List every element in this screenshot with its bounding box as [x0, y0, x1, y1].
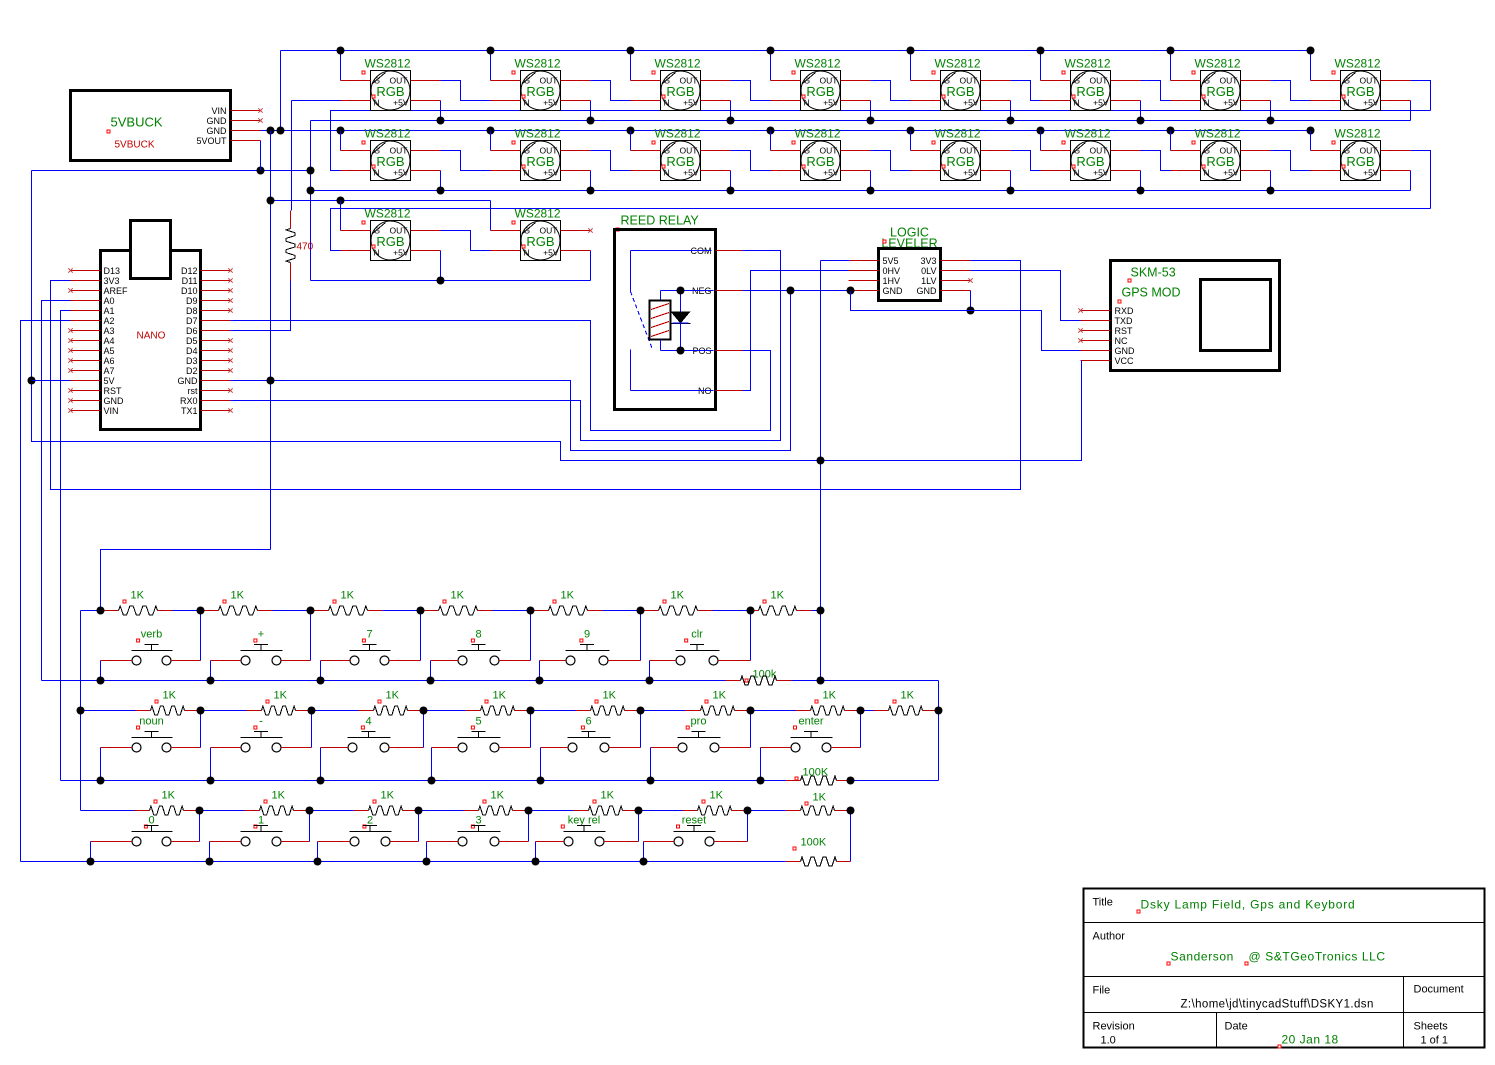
svg-text:WS2812: WS2812: [1065, 57, 1111, 71]
unconnected pin markers NANO left: [68, 268, 72, 272]
wire data OUT-IN row2 1: [441, 151, 491, 171]
svg-text:pro: pro: [691, 716, 707, 728]
svg-text:1K: 1K: [823, 690, 837, 702]
WS2812 RGB LED module D1: [341, 57, 441, 111]
resistor R4 1K: [311, 590, 421, 616]
svg-text:A0: A0: [104, 296, 115, 306]
junction dots +5V rail row1: [437, 117, 445, 125]
svg-text:5VBUCK: 5VBUCK: [115, 140, 155, 151]
wire net LL 0LV to GPS TXD: [971, 271, 1081, 321]
svg-text:WS2812: WS2812: [795, 57, 841, 71]
svg-text:Sheets: Sheets: [1414, 1021, 1449, 1033]
wire button verb left drop: [100, 661, 102, 681]
wire net 5V distribution: [32, 171, 1082, 461]
svg-text:Author: Author: [1093, 931, 1126, 943]
svg-text:enter: enter: [798, 716, 823, 728]
svg-text:Date: Date: [1225, 1021, 1248, 1033]
svg-text:1K: 1K: [603, 690, 617, 702]
wire button 6 left drop: [540, 748, 542, 781]
resistor R10 1K: [201, 690, 312, 716]
svg-text:20 Jan 18: 20 Jan 18: [1282, 1033, 1339, 1047]
wire button pro right riser: [750, 711, 752, 748]
svg-text:GND: GND: [178, 376, 199, 386]
wire button + left drop: [210, 661, 212, 681]
svg-text:D8: D8: [186, 306, 198, 316]
wire G drop row3 module2: [490, 201, 492, 231]
wire keypad right link x=938: [938, 681, 940, 781]
WS2812 RGB LED module D6: [1041, 57, 1141, 111]
wire button key rel left drop: [535, 842, 537, 862]
wire button 5 left drop: [431, 748, 433, 781]
svg-text:1.0: 1.0: [1101, 1035, 1116, 1047]
resistor R20 1K: [310, 790, 419, 816]
wire net relay NO to LL 0HV: [743, 271, 849, 391]
wire G drop row2 x=340: [340, 131, 342, 151]
svg-text:noun: noun: [139, 716, 163, 728]
svg-text:RST: RST: [104, 386, 123, 396]
wire net GND to keypad pullup bus: [101, 550, 271, 611]
svg-text:8: 8: [475, 629, 481, 641]
svg-text:+5V: +5V: [823, 168, 839, 178]
wire LL 5V5 to 5V column: [821, 260, 850, 262]
wire +5V drop row2 x=1410: [1410, 171, 1412, 191]
wire +5V drop row2 x=590: [590, 171, 592, 191]
WS2812 RGB LED module D5: [911, 57, 1011, 111]
junction dot LL GND right: [967, 307, 975, 315]
junction dots keypad return row3: [87, 858, 95, 866]
relay coil: [661, 290, 714, 292]
svg-text:WS2812: WS2812: [795, 127, 841, 141]
svg-text:WS2812: WS2812: [1335, 57, 1381, 71]
svg-text:1K: 1K: [163, 690, 177, 702]
svg-text:VIN: VIN: [211, 106, 226, 116]
wire button 0 left drop: [90, 842, 92, 862]
svg-text:@ S&TGeoTronics LLC: @ S&TGeoTronics LLC: [1249, 950, 1386, 964]
resistor R11 1K: [312, 690, 424, 716]
pushbutton -: [211, 716, 312, 753]
svg-text:+5V: +5V: [963, 168, 979, 178]
wire net LL GND to GPS GND: [851, 291, 1081, 351]
svg-text:A5: A5: [104, 346, 115, 356]
wire +5V drop row1 x=440: [440, 101, 442, 121]
svg-text:N: N: [374, 168, 380, 178]
wire LL GND right drop: [970, 291, 972, 311]
wire +5V drop row1 x=1010: [1010, 101, 1012, 121]
svg-text:N: N: [524, 248, 530, 258]
svg-text:Dsky Lamp Field, Gps and Keybo: Dsky Lamp Field, Gps and Keybord: [1141, 898, 1356, 912]
svg-text:TX1: TX1: [181, 406, 198, 416]
svg-text:NC: NC: [1115, 336, 1128, 346]
wire net GND NANO to relay NEG and LL GND: [231, 291, 791, 451]
resistor R5 1K: [421, 590, 531, 616]
title block: [1084, 889, 1485, 1049]
wire +5V drop row1 x=870: [870, 101, 872, 121]
wire +5V drop row2 x=730: [730, 171, 732, 191]
svg-text:N: N: [944, 168, 950, 178]
wire data OUT8 row2 to return rail: [1411, 151, 1431, 209]
wire +5V rail row1 y=120: [311, 120, 1411, 122]
svg-text:File: File: [1093, 985, 1111, 997]
junction dots keypad bus row2: [77, 707, 85, 715]
svg-text:WS2812: WS2812: [515, 57, 561, 71]
svg-text:D5: D5: [186, 336, 198, 346]
svg-text:WS2812: WS2812: [515, 207, 561, 221]
wire +5V rail row2 y=190: [311, 190, 1411, 192]
wire button 2 left drop: [317, 842, 319, 862]
wire button 9 right riser: [640, 611, 642, 661]
svg-text:RXD: RXD: [1115, 306, 1135, 316]
svg-text:clr: clr: [691, 629, 703, 641]
wire button 1 right riser: [309, 811, 311, 842]
wire +5V drop row3 module2: [590, 251, 592, 281]
wire +5V drop row1 x=1410: [1410, 101, 1412, 121]
resistor R19 1K: [200, 790, 310, 816]
wire button 8 right riser: [530, 611, 532, 661]
wire data OUT-IN row1 6: [1141, 81, 1171, 101]
microcontroller U1 NANO: [68, 221, 232, 430]
wire NANO 5V pin stub link: [32, 380, 71, 382]
svg-text:WS2812: WS2812: [365, 57, 411, 71]
svg-text:D11: D11: [182, 276, 198, 286]
svg-text:key rel: key rel: [568, 815, 600, 827]
svg-text:1K: 1K: [813, 792, 827, 804]
pushbutton 6: [541, 716, 641, 753]
wire button reset right riser: [747, 811, 749, 842]
relay K1 REED RELAY: [615, 214, 743, 410]
svg-text:A7: A7: [104, 366, 115, 376]
resistor R8 1K row1 end: [751, 590, 821, 616]
unconnected pin markers NANO right: [228, 268, 232, 272]
wire G drop row1 x=340: [340, 51, 342, 81]
WS2812 RGB LED module D18: [491, 207, 591, 261]
svg-text:TXD: TXD: [1115, 316, 1134, 326]
svg-text:D10: D10: [181, 286, 198, 296]
svg-text:+5V: +5V: [1223, 98, 1239, 108]
WS2812 RGB LED module D12: [771, 127, 871, 181]
svg-text:1K: 1K: [341, 590, 355, 602]
wire button 4 left drop: [320, 748, 322, 781]
svg-text:0: 0: [148, 815, 154, 827]
wire +5V drop row1 x=1270: [1270, 101, 1272, 121]
wire button 3 left drop: [426, 842, 428, 862]
svg-text:+5V: +5V: [393, 248, 409, 258]
WS2812 RGB LED module D16: [1311, 127, 1411, 181]
svg-text:1K: 1K: [601, 790, 615, 802]
svg-text:Sanderson: Sanderson: [1171, 950, 1234, 964]
svg-text:4: 4: [365, 716, 371, 728]
pushbutton pro: [651, 716, 751, 753]
svg-text:WS2812: WS2812: [365, 127, 411, 141]
svg-text:9: 9: [584, 629, 590, 641]
wire +5V rail row3 y=280: [311, 280, 591, 282]
wire button 3 right riser: [528, 811, 530, 842]
junction dots keypad bus row3: [196, 807, 204, 815]
svg-text:+5V: +5V: [543, 248, 559, 258]
svg-text:Z:\home\jd\tinycadStuff\DSKY1.: Z:\home\jd\tinycadStuff\DSKY1.dsn: [1181, 999, 1374, 1011]
svg-text:5V: 5V: [104, 376, 115, 386]
svg-text:D2: D2: [186, 366, 198, 376]
svg-text:7: 7: [366, 629, 372, 641]
pushbutton noun: [101, 716, 201, 753]
svg-text:5VOUT: 5VOUT: [196, 136, 227, 146]
wire data return rail y=110: [331, 111, 1431, 171]
wire 5VOUT drop x=260: [260, 141, 262, 171]
wire +5V drop row2 x=1010: [1010, 171, 1012, 191]
svg-text:D13: D13: [104, 266, 121, 276]
svg-text:D12: D12: [181, 266, 198, 276]
wire G drop row1 x=490: [490, 51, 492, 81]
svg-text:N: N: [374, 98, 380, 108]
svg-text:2: 2: [367, 815, 373, 827]
svg-text:N: N: [1204, 98, 1210, 108]
svg-text:A4: A4: [104, 336, 115, 346]
wire button - right riser: [311, 711, 313, 748]
svg-text:1K: 1K: [713, 690, 727, 702]
power module 5VBUCK: [71, 91, 263, 161]
svg-text:A2: A2: [104, 316, 115, 326]
junction dots keypad return row2: [97, 777, 105, 785]
WS2812 RGB LED module D17: [341, 207, 441, 261]
wire G drop row2 x=770: [770, 131, 772, 151]
svg-text:5V5: 5V5: [883, 256, 899, 266]
svg-text:+: +: [258, 629, 264, 641]
svg-text:D7: D7: [186, 316, 198, 326]
wire G drop row2 x=910: [910, 131, 912, 151]
svg-text:N: N: [804, 168, 810, 178]
svg-text:470: 470: [297, 242, 314, 253]
wire button + right riser: [310, 611, 312, 661]
wire button enter left drop: [760, 748, 762, 781]
svg-text:WS2812: WS2812: [1195, 57, 1241, 71]
wire button 7 left drop: [320, 661, 322, 681]
svg-text:-: -: [259, 716, 263, 728]
svg-text:GND: GND: [104, 396, 125, 406]
wire keypad right link x=850: [850, 811, 852, 862]
wire button enter right riser: [860, 711, 862, 748]
pushbutton 1: [210, 815, 310, 847]
resistor R14 1K: [641, 690, 751, 716]
svg-text:N: N: [1074, 168, 1080, 178]
svg-text:N: N: [1074, 98, 1080, 108]
svg-text:N: N: [664, 98, 670, 108]
wire data OUT8 row1 to return rail: [1411, 81, 1431, 111]
wire G drop row3 module1: [340, 201, 342, 231]
wire +5V spine x=310: [310, 121, 312, 281]
svg-text:+5V: +5V: [543, 168, 559, 178]
pushbutton 3: [427, 815, 529, 847]
junction dots ground rail row1: [337, 47, 345, 55]
svg-text:GND: GND: [207, 116, 228, 126]
svg-text:1K: 1K: [671, 590, 685, 602]
wire 5V feed y=170: [32, 170, 311, 172]
svg-text:5VBUCK: 5VBUCK: [111, 115, 163, 130]
wire button pro left drop: [650, 748, 652, 781]
resistor R3 1K: [201, 590, 311, 616]
resistor R23 1K: [639, 790, 748, 816]
junction dot NANO GND: [267, 377, 275, 385]
svg-text:+5V: +5V: [823, 98, 839, 108]
wire keypad return bus row1 y=680: [42, 680, 650, 682]
svg-text:SKM-53: SKM-53: [1131, 266, 1176, 280]
wire data OUT-IN row1 2: [591, 81, 631, 101]
pushbutton 2: [318, 815, 419, 847]
unconnected pin markers GPS: [1078, 308, 1082, 312]
svg-text:+5V: +5V: [1093, 168, 1109, 178]
wire +5V drop row2 x=1270: [1270, 171, 1272, 191]
resistor R1 470 data line: [286, 101, 341, 281]
svg-text:N: N: [804, 98, 810, 108]
svg-text:1K: 1K: [272, 790, 286, 802]
svg-text:1LV: 1LV: [921, 276, 936, 286]
wire button reset left drop: [643, 842, 645, 862]
svg-text:rst: rst: [188, 386, 198, 396]
svg-text:WS2812: WS2812: [1335, 127, 1381, 141]
pushbutton +: [211, 629, 311, 666]
wire G drop row2 x=1310: [1310, 131, 1312, 151]
svg-text:WS2812: WS2812: [1065, 127, 1111, 141]
svg-text:GND: GND: [917, 286, 938, 296]
svg-text:N: N: [1344, 98, 1350, 108]
svg-text:D3: D3: [186, 356, 198, 366]
svg-text:1K: 1K: [386, 690, 400, 702]
resistor R21 1K: [419, 790, 529, 816]
svg-text:D9: D9: [186, 296, 198, 306]
svg-text:+5V: +5V: [1093, 98, 1109, 108]
wire keypad bus row1 left segment: [81, 610, 101, 612]
wire keypad gnd link x=80: [80, 611, 82, 811]
svg-text:100K: 100K: [803, 767, 829, 779]
svg-text:GPS MOD: GPS MOD: [1122, 286, 1181, 300]
WS2812 RGB LED module D8: [1311, 57, 1411, 111]
svg-text:0HV: 0HV: [883, 266, 901, 276]
wire +5V drop row3 module1: [440, 251, 442, 281]
wire +5V drop row2 x=870: [870, 171, 872, 191]
svg-text:1K: 1K: [131, 590, 145, 602]
svg-text:100k: 100k: [753, 669, 777, 681]
pushbutton verb: [101, 629, 201, 666]
wire G drop row2 x=490: [490, 131, 492, 151]
resistor R17 1K row2 end: [861, 690, 939, 716]
svg-text:1: 1: [258, 815, 264, 827]
resistor R26 100K row2 return: [761, 767, 851, 786]
resistor R22 1K: [529, 790, 639, 816]
svg-text:+5V: +5V: [393, 168, 409, 178]
svg-text:N: N: [944, 98, 950, 108]
resistor R13 1K: [531, 690, 641, 716]
svg-text:+5V: +5V: [683, 168, 699, 178]
svg-text:1K: 1K: [274, 690, 288, 702]
svg-text:100K: 100K: [801, 837, 827, 849]
junction dots +5V rail row2: [307, 187, 315, 195]
WS2812 RGB LED module D10: [491, 127, 591, 181]
wire net 3V3 NANO to LL 3V3: [51, 261, 1021, 490]
WS2812 RGB LED module D4: [771, 57, 871, 111]
wire ground link x=280: [280, 51, 282, 131]
wire button 9 left drop: [539, 661, 541, 681]
wire data OUT-IN row2 2: [591, 151, 631, 171]
wire data OUT-IN row2 5: [1011, 151, 1041, 171]
resistor R2 1K: [101, 590, 201, 616]
relay flyback diode: [680, 291, 682, 351]
wire +5V drop row2 x=1140: [1140, 171, 1142, 191]
svg-text:+5V: +5V: [1363, 168, 1379, 178]
WS2812 RGB LED module D7: [1171, 57, 1271, 111]
pushbutton enter: [761, 716, 861, 753]
svg-text:D6: D6: [186, 326, 198, 336]
wire data return rail y=208: [331, 209, 1431, 251]
junction dot +5V rail row3: [437, 277, 445, 285]
wire NEG to LL GND left: [743, 290, 849, 292]
svg-text:RST: RST: [1115, 326, 1134, 336]
pushbutton 0: [91, 815, 200, 847]
wire G drop row2 x=1040: [1040, 131, 1042, 151]
resistor R18 1K: [81, 790, 200, 816]
unconnected OUT marker row3 module D18: [588, 228, 592, 232]
wire G drop row2 x=630: [630, 131, 632, 151]
pushbutton reset: [644, 815, 748, 847]
svg-text:1K: 1K: [231, 590, 245, 602]
pushbutton 4: [321, 716, 424, 753]
svg-text:1K: 1K: [710, 790, 724, 802]
wire net A1 to keypad row2 return: [61, 311, 71, 781]
svg-text:N: N: [524, 168, 530, 178]
svg-text:VIN: VIN: [104, 406, 119, 416]
svg-text:reset: reset: [682, 815, 706, 827]
resistor R6 1K: [531, 590, 641, 616]
wire G drop row1 x=1310: [1310, 51, 1312, 81]
svg-text:REED RELAY: REED RELAY: [621, 214, 700, 228]
wire ground rail row2 y=130: [261, 130, 1311, 132]
svg-text:RX0: RX0: [180, 396, 198, 406]
wire keypad return bus row3 y=861: [21, 861, 644, 863]
svg-text:VCC: VCC: [1115, 356, 1135, 366]
wire G drop row1 x=770: [770, 51, 772, 81]
svg-text:1K: 1K: [493, 690, 507, 702]
wire GND spine x=270: [270, 131, 272, 550]
wire +5V drop row1 x=590: [590, 101, 592, 121]
wire 5V keyboard column x=820: [820, 261, 822, 681]
svg-text:WS2812: WS2812: [935, 127, 981, 141]
resistor R24 1K row3 end: [748, 792, 851, 816]
pushbutton 8: [431, 629, 531, 666]
svg-text:GND: GND: [883, 286, 904, 296]
wire button noun right riser: [200, 711, 202, 748]
wire data OUT-IN row1 4: [871, 81, 911, 101]
wire button 5 right riser: [530, 711, 532, 748]
svg-text:GND: GND: [207, 126, 228, 136]
wire ground rail row3 y=200: [271, 200, 491, 202]
resistor R7 1K: [641, 590, 751, 616]
svg-text:+5V: +5V: [1223, 168, 1239, 178]
wire G drop row1 x=1040: [1040, 51, 1042, 81]
GPS module U3 SKM-53: [1078, 261, 1279, 371]
svg-text:WS2812: WS2812: [1195, 127, 1241, 141]
wire button 1 left drop: [209, 842, 211, 862]
wire data OUT-IN row1 3: [731, 81, 771, 101]
pushbutton key rel: [536, 815, 639, 847]
svg-text:1K: 1K: [901, 690, 915, 702]
junction dots ground rail row2: [267, 127, 275, 135]
WS2812 RGB LED module D9: [341, 127, 441, 181]
svg-text:A3: A3: [104, 326, 115, 336]
wire button clr right riser: [750, 611, 752, 661]
junction dot NEG net: [787, 287, 795, 295]
svg-text:3V3: 3V3: [104, 276, 120, 286]
resistor R12 1K: [424, 690, 531, 716]
svg-text:+5V: +5V: [393, 98, 409, 108]
wire G drop row1 x=1170: [1170, 51, 1172, 81]
svg-text:A6: A6: [104, 356, 115, 366]
